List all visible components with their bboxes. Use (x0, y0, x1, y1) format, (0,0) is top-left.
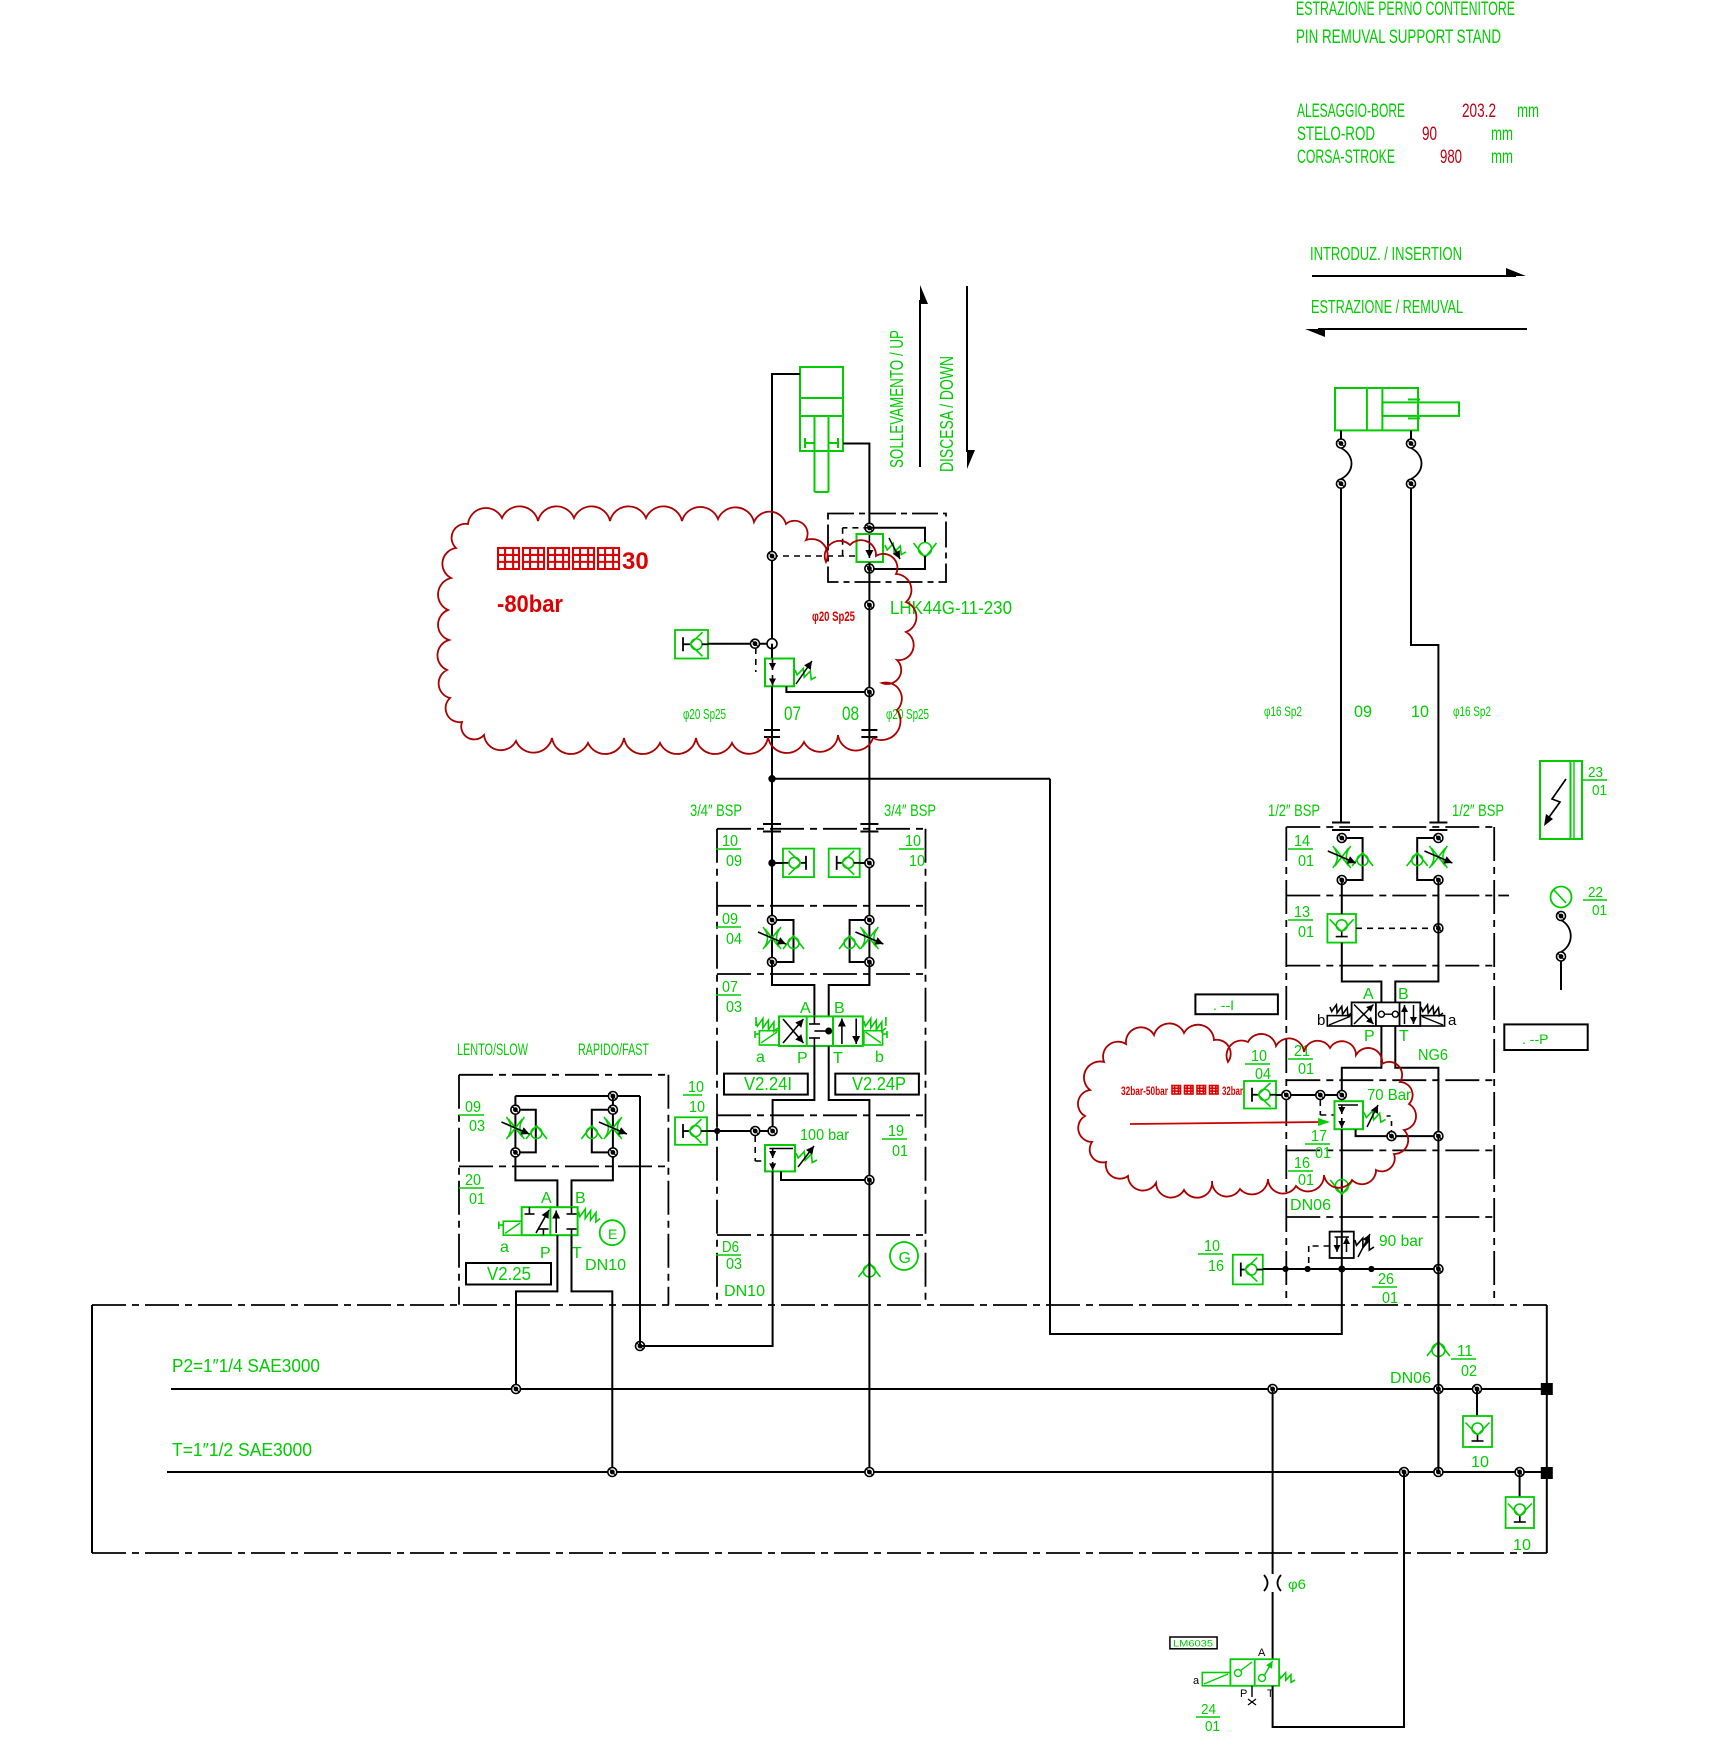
junction on check line (751, 639, 760, 648)
svg-text:10: 10 (688, 1079, 704, 1096)
tag box V2.24P (835, 1074, 919, 1095)
svg-text:ESTRAZIONE / REMUVAL: ESTRAZIONE / REMUVAL (1311, 297, 1463, 317)
wire 100bar out (781, 1171, 869, 1180)
valve V2.24 springs (756, 1017, 886, 1031)
svg-text:B: B (1398, 986, 1409, 1003)
svg-text:10: 10 (1411, 702, 1429, 721)
check valve 10 (right boxed) (1506, 1497, 1534, 1528)
relief valve 70 Bar (1335, 1101, 1391, 1129)
wire pin cyl port A (1340, 430, 1342, 439)
label 07/03 (716, 979, 742, 1016)
solenoid a V2.24 (755, 1031, 779, 1045)
svg-text:. --I: . --I (1213, 997, 1234, 1013)
svg-text:A: A (541, 1190, 552, 1207)
svg-text:01: 01 (1315, 1145, 1331, 1162)
wire LHK bypass bottom (869, 556, 925, 569)
svg-text:10: 10 (1513, 1537, 1531, 1554)
wire pin line 09 (1340, 488, 1342, 823)
svg-text:07: 07 (722, 979, 738, 996)
manifold right boundary (1286, 827, 1509, 1305)
wire check to P line (707, 1130, 773, 1132)
valve NG6 right arrows (1401, 1005, 1417, 1024)
svg-text:09: 09 (1354, 702, 1372, 721)
junction gauge bottom (1557, 952, 1566, 961)
orifice phi6 (1264, 1575, 1281, 1591)
relief valve 90 bar (black) (1330, 1232, 1374, 1258)
check valve pilot supply (boxed) (675, 1117, 707, 1145)
open circle crossing (767, 639, 777, 649)
counterbalance valve LHK (green box) (857, 534, 907, 562)
pilot dash reducing (755, 648, 757, 672)
wire reducer out right (786, 686, 869, 692)
svg-text:a: a (756, 1049, 765, 1066)
gauge E circle (600, 1220, 625, 1245)
svg-text:01: 01 (1298, 924, 1314, 941)
svg-text:DISCESA / DOWN: DISCESA / DOWN (937, 356, 957, 472)
junction P2 c1 (1268, 1385, 1277, 1394)
label 13/01 (1288, 904, 1314, 941)
throttle pfl (1328, 846, 1356, 868)
svg-text:10: 10 (1471, 1454, 1489, 1471)
svg-text:16: 16 (1294, 1155, 1310, 1172)
junction pilot on piston line (768, 552, 777, 561)
label 23/01 (1583, 764, 1607, 799)
label 10/04 (1245, 1048, 1271, 1083)
svg-text:T: T (572, 1245, 582, 1262)
svg-text:mm: mm (1491, 147, 1513, 168)
svg-text:01: 01 (1298, 1172, 1314, 1189)
wire cross link y778 (772, 778, 1050, 780)
junction T r2 (1434, 1468, 1443, 1477)
wire B jog (829, 962, 870, 1016)
label 09/03 (459, 1099, 485, 1135)
svg-text:A: A (800, 1000, 811, 1017)
junction tee y778 (769, 776, 775, 782)
cylinder main (vertical) (800, 367, 843, 492)
junction lfr bot (608, 1148, 617, 1157)
svg-text:70 Bar: 70 Bar (1367, 1087, 1412, 1104)
junction lfl top (511, 1105, 520, 1114)
svg-text:φ6: φ6 (1288, 1576, 1306, 1592)
cloud1 chinese text (498, 548, 619, 569)
label 09/04 (716, 911, 742, 948)
junction P2 lento (512, 1385, 521, 1394)
svg-text:3/4″ BSP: 3/4″ BSP (690, 801, 742, 820)
wire T below valve (829, 1046, 870, 1180)
svg-text:PIN REMUVAL SUPPORT STAND: PIN REMUVAL SUPPORT STAND (1296, 27, 1501, 48)
check valve section right (829, 849, 860, 878)
svg-text:a: a (1193, 1675, 1200, 1687)
svg-text:10: 10 (722, 833, 738, 850)
valve NG6 left arrows (1354, 1005, 1374, 1025)
wire lento branch B (572, 1096, 613, 1207)
svg-text:01: 01 (1205, 1718, 1220, 1735)
wire piston line to manifold (771, 737, 773, 985)
pilot dash 90bar (1309, 1246, 1330, 1266)
junction pfr bot (1434, 876, 1443, 885)
junction LHK bottom (865, 564, 874, 573)
gauge hose arc (1561, 920, 1571, 952)
wire 70bar to check (1341, 1129, 1343, 1269)
svg-text:V2.24P: V2.24P (852, 1074, 906, 1094)
dot d2 (1305, 1266, 1310, 1271)
svg-text:B: B (834, 1000, 845, 1017)
valve NG6 body (1352, 1002, 1421, 1026)
wire LHK out (868, 562, 870, 605)
svg-text:a: a (1448, 1012, 1457, 1029)
svg-text:32bar-50bar: 32bar-50bar (1121, 1084, 1168, 1098)
svg-text:b: b (1317, 1012, 1325, 1029)
label 20/01 (459, 1172, 485, 1208)
svg-text:07: 07 (784, 704, 801, 725)
check valve fcl (783, 936, 804, 950)
pilot dash 70bar spring (1391, 1121, 1393, 1132)
svg-text:A: A (1258, 1647, 1266, 1659)
svg-text:16: 16 (1208, 1258, 1224, 1275)
label 21/01 (1288, 1043, 1314, 1078)
svg-text:3/4″ BSP: 3/4″ BSP (884, 801, 936, 820)
wire lento link right (640, 1345, 773, 1347)
check valve 10/04 (boxed) (1244, 1081, 1276, 1109)
svg-text:01: 01 (1592, 902, 1607, 919)
junction lento top (608, 1092, 617, 1101)
svg-text:1/2″ BSP: 1/2″ BSP (1268, 801, 1320, 820)
hose arc B (1411, 448, 1422, 479)
wire 26 to P2 (1437, 1269, 1439, 1472)
block LHK44G boundary (828, 514, 946, 583)
junction 10/16 right (1434, 1265, 1443, 1274)
junction hose B1 (1407, 439, 1416, 448)
manifold lento boundary (459, 1075, 668, 1305)
svg-text:DN10: DN10 (724, 1283, 765, 1300)
wire LHK bypass top (869, 528, 925, 542)
junction lfl bot (511, 1148, 520, 1157)
svg-text:14: 14 (1294, 833, 1310, 850)
junction pilot 13/01 (1434, 924, 1443, 933)
solenoid V2.25 (499, 1221, 522, 1235)
wire LHK to reducing tee (868, 605, 870, 692)
junction lfr top (608, 1105, 617, 1114)
svg-text:LHK44G-11-230: LHK44G-11-230 (890, 598, 1012, 618)
svg-text:90: 90 (1422, 124, 1437, 145)
component 23/01 (accumulator/filter) (1540, 761, 1582, 839)
label 24/01 (1196, 1701, 1220, 1735)
svg-text:P: P (797, 1050, 808, 1067)
wire lento top link (515, 1095, 640, 1097)
junction T r1 (1400, 1468, 1409, 1477)
svg-text:13: 13 (1294, 904, 1310, 921)
valve 24/01 body (1230, 1659, 1279, 1686)
svg-text:04: 04 (726, 931, 742, 948)
svg-text:1/2″ BSP: 1/2″ BSP (1452, 801, 1504, 820)
svg-text:01: 01 (892, 1143, 908, 1160)
junction 70bar out b (1434, 1132, 1443, 1141)
port square T (1541, 1468, 1552, 1479)
label 10/10 (899, 833, 925, 870)
check valve pfr (1407, 853, 1428, 867)
svg-text:RAPIDO/FAST: RAPIDO/FAST (578, 1040, 649, 1059)
wire rod line down (868, 692, 870, 985)
junction reducer out (865, 688, 874, 697)
valve V2.25 body (522, 1207, 578, 1235)
svg-text:CORSA-STROKE: CORSA-STROKE (1297, 147, 1395, 168)
wire A jog (772, 962, 814, 1016)
gauge 22/01 (1551, 887, 1572, 908)
junction P2 c2 (1434, 1385, 1443, 1394)
wire piston line through reducer (771, 644, 773, 659)
boundary bottom region (92, 1305, 1547, 1553)
svg-text:01: 01 (469, 1191, 485, 1208)
solenoid b NG6 (1327, 1016, 1351, 1026)
solenoid a NG6 (1420, 1016, 1444, 1026)
wire NG6 P down (1342, 1026, 1382, 1101)
svg-text:φ20 Sp25: φ20 Sp25 (812, 608, 855, 624)
check valve 10/16 (boxed) (1233, 1255, 1263, 1285)
check valve DN06 (1330, 1180, 1353, 1195)
svg-text:a: a (500, 1239, 509, 1256)
svg-text:T: T (833, 1050, 843, 1067)
ticks port B (860, 824, 878, 832)
dot d1 (1283, 1266, 1288, 1271)
check valve 10 (left boxed) (1463, 1416, 1492, 1447)
wire 70bar out (1356, 1129, 1439, 1136)
junction pfl top (1337, 834, 1346, 843)
tag box V2.24I (724, 1074, 808, 1095)
check valve 11/02 (1427, 1342, 1450, 1357)
wire right link down (1050, 779, 1342, 1334)
port square P2 (1541, 1384, 1552, 1395)
wire P below valve (773, 1046, 815, 1131)
junction LHK top (865, 523, 874, 532)
wire pin B to NG6 (1395, 880, 1438, 1002)
svg-text:10: 10 (1251, 1048, 1267, 1065)
svg-text:19: 19 (888, 1123, 904, 1140)
junction below LHK (865, 601, 874, 610)
arrow insertion (right) (1312, 268, 1526, 276)
dot on manifold edge (715, 1128, 720, 1133)
check valve fcr (839, 936, 860, 950)
wire P2 to check10a (1476, 1389, 1478, 1416)
svg-text:V2.24I: V2.24I (744, 1074, 792, 1094)
wire P line bottom (640, 1171, 773, 1346)
valve NG6 center float (1378, 1011, 1398, 1017)
svg-text:φ16 Sp2: φ16 Sp2 (1453, 703, 1491, 719)
wire cylinder rod port (843, 444, 869, 528)
wire check to piston line (708, 643, 772, 645)
label 10/16 (1198, 1238, 1224, 1275)
valve V2.25 spring (579, 1209, 601, 1222)
junction hose B2 (1407, 479, 1416, 488)
wire lento T down (572, 1235, 613, 1472)
svg-text:ESTRAZIONE PERNO CONTENITORE: ESTRAZIONE PERNO CONTENITORE (1296, 0, 1515, 20)
svg-text:φ20 Sp25: φ20 Sp25 (886, 706, 929, 723)
svg-text:LENTO/SLOW: LENTO/SLOW (457, 1040, 528, 1059)
wire P2 down to orifice (1272, 1389, 1274, 1574)
label 11/02 (1451, 1343, 1477, 1380)
junction T center (865, 1468, 874, 1477)
throttle lfr (599, 1117, 627, 1139)
wire pin line 10 (1411, 488, 1438, 823)
svg-text:03: 03 (726, 1256, 742, 1273)
svg-text:NG6: NG6 (1418, 1047, 1448, 1064)
check valve LHK bypass (914, 543, 937, 558)
svg-text:22: 22 (1588, 884, 1603, 901)
check valve lfl (526, 1126, 547, 1140)
svg-text:φ16 Sp2: φ16 Sp2 (1264, 703, 1302, 719)
junction c2 (1316, 1091, 1325, 1100)
junction T r3 (1515, 1468, 1524, 1477)
label 17/01 (1305, 1128, 1331, 1162)
junction hose A2 (1337, 479, 1346, 488)
check valve section left (783, 849, 814, 878)
svg-text:203.2: 203.2 (1462, 101, 1496, 122)
svg-text:10: 10 (1204, 1238, 1220, 1255)
wire pin A valve to NG6 (1342, 943, 1382, 1003)
svg-text:mm: mm (1491, 124, 1513, 145)
svg-text:24: 24 (1201, 1701, 1216, 1718)
pilot dash 100bar (755, 1136, 765, 1161)
wire cylinder cap port (772, 374, 800, 644)
svg-text:D6: D6 (722, 1239, 739, 1256)
dot d3 (1339, 1266, 1345, 1272)
flow control pin right (1417, 838, 1438, 880)
label 14/01 (1288, 833, 1314, 870)
label 22/01 (1583, 884, 1607, 919)
wire orifice to valve (1272, 1592, 1274, 1659)
valve V2.24 body (779, 1016, 863, 1046)
pilot dashes LHK (772, 528, 869, 556)
label 26/01 (1372, 1271, 1398, 1307)
svg-text:SOLLEVAMENTO / UP: SOLLEVAMENTO / UP (887, 330, 907, 468)
svg-text:90 bar: 90 bar (1379, 1233, 1424, 1250)
svg-text:P: P (540, 1245, 551, 1262)
junction c3 (1337, 1091, 1346, 1100)
svg-text:23: 23 (1588, 764, 1603, 781)
junction fcl top (768, 916, 777, 925)
junction P-to-lento (636, 1342, 645, 1351)
wire T line bottom (868, 1180, 870, 1472)
svg-text:mm: mm (1517, 101, 1539, 122)
gauge G (890, 1242, 918, 1270)
cloud2 leader (1130, 1118, 1330, 1126)
svg-text:20: 20 (465, 1172, 481, 1189)
svg-text:-80bar: -80bar (497, 591, 563, 618)
valve V2.25 marks (525, 1207, 577, 1235)
tag box V2.25 (466, 1263, 551, 1285)
junction P line (768, 1127, 777, 1136)
valve NG6 springs (1330, 1005, 1443, 1016)
throttle lfl (501, 1117, 529, 1139)
cloud2 chinese text (1172, 1086, 1218, 1095)
wire 10/04 line (1276, 1094, 1342, 1096)
svg-text:DN06: DN06 (1290, 1197, 1331, 1214)
junction gauge top (1557, 912, 1566, 921)
drain X mark (1248, 1686, 1256, 1705)
label 16/01 (1288, 1155, 1314, 1189)
label 10/09 (716, 833, 742, 870)
wire T to check10b (1519, 1472, 1521, 1497)
svg-text:G: G (899, 1250, 911, 1267)
svg-text:09: 09 (726, 853, 742, 870)
solenoid b V2.24 (864, 1031, 887, 1045)
svg-text:A: A (1363, 986, 1374, 1003)
valve 24/01 spring (1279, 1673, 1295, 1683)
junction P2 c3 (1473, 1385, 1482, 1394)
svg-text:03: 03 (469, 1118, 485, 1135)
svg-text:P2=1″1/4 SAE3000: P2=1″1/4 SAE3000 (172, 1356, 320, 1376)
valve V2.24 center blocks (809, 1016, 832, 1046)
ticks pin port 09 (1332, 823, 1350, 831)
wire lento right link down (639, 1096, 641, 1346)
svg-text:V2.25: V2.25 (487, 1264, 531, 1284)
junction fcr top (865, 916, 874, 925)
svg-text:LM6035: LM6035 (1173, 1639, 1213, 1649)
ticks pin port 10 (1429, 823, 1447, 831)
svg-text:T: T (1399, 1028, 1409, 1045)
pilot dash 70bar (1320, 1100, 1334, 1115)
ticks hose A (764, 730, 780, 737)
svg-text:b: b (875, 1049, 884, 1066)
wire lento P down (516, 1235, 557, 1389)
svg-text:30: 30 (622, 548, 649, 575)
flow control right loop (850, 920, 870, 962)
wire T line (167, 1471, 1541, 1473)
tag box --I (1195, 994, 1278, 1014)
svg-text:08: 08 (842, 704, 859, 725)
cylinder pin (horizontal) (1335, 388, 1459, 430)
pilot dash 13/01 (1356, 927, 1438, 929)
wire piston line down (771, 686, 773, 778)
svg-text:P: P (1240, 1688, 1247, 1700)
label D6/03 (716, 1239, 742, 1273)
svg-text:STELO-ROD: STELO-ROD (1297, 124, 1375, 145)
svg-text:10: 10 (909, 853, 925, 870)
revision cloud 2 (1078, 1023, 1416, 1197)
svg-text:01: 01 (1298, 853, 1314, 870)
svg-text:17: 17 (1311, 1128, 1327, 1145)
svg-text:09: 09 (465, 1099, 481, 1116)
svg-text:10: 10 (905, 833, 921, 850)
junction 100bar out (865, 1176, 874, 1185)
wire 10/16 line (1263, 1268, 1439, 1270)
solenoid 24/01 (1202, 1673, 1230, 1686)
throttle fcl (758, 927, 786, 949)
junction hose A1 (1337, 439, 1346, 448)
junction pfr top (1434, 834, 1443, 843)
label 10/10 lower (683, 1079, 705, 1116)
arrow down (967, 286, 975, 469)
dot d4 (1369, 1266, 1374, 1271)
throttle fcr (855, 927, 883, 949)
manifold center boundary (717, 829, 926, 1305)
hose arc A (1341, 448, 1352, 479)
svg-text:INTRODUZ. / INSERTION: INTRODUZ. / INSERTION (1310, 244, 1462, 264)
wire lento branch A (515, 1096, 557, 1207)
svg-text:11: 11 (1457, 1343, 1473, 1360)
valve V2.24 right arrows (838, 1019, 860, 1045)
flow control lento right (592, 1110, 613, 1153)
wire pin cyl port B (1410, 430, 1412, 439)
relief valve 100bar (765, 1145, 817, 1171)
arrow up (920, 285, 928, 467)
svg-text:01: 01 (1592, 782, 1607, 799)
svg-text:980: 980 (1440, 147, 1462, 168)
pilot check valve 13/01 (1327, 914, 1356, 943)
flow control pin left (1342, 838, 1363, 880)
svg-text:10: 10 (689, 1099, 705, 1116)
stub check left (772, 862, 783, 864)
wire P2 line (171, 1388, 1541, 1390)
